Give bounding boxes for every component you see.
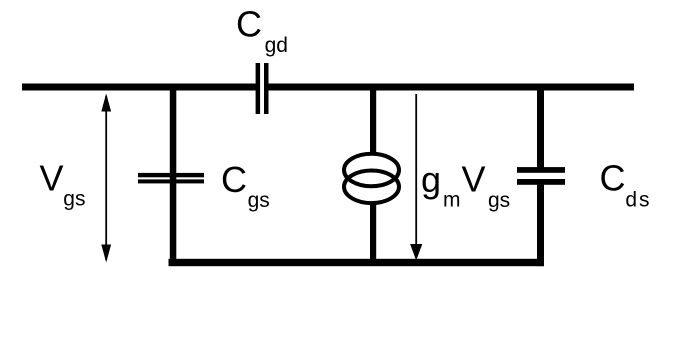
- svg-text:C: C: [236, 4, 262, 45]
- svg-text:m: m: [443, 189, 461, 212]
- svg-text:gd: gd: [265, 34, 288, 57]
- svg-text:gs: gs: [63, 188, 85, 211]
- svg-text:g: g: [421, 159, 441, 200]
- svg-text:gs: gs: [488, 189, 510, 212]
- svg-text:V: V: [462, 159, 486, 200]
- svg-text:V: V: [40, 158, 64, 199]
- svg-text:ds: ds: [625, 188, 651, 211]
- svg-text:C: C: [600, 157, 626, 198]
- svg-text:gs: gs: [248, 189, 270, 212]
- svg-text:C: C: [221, 159, 247, 200]
